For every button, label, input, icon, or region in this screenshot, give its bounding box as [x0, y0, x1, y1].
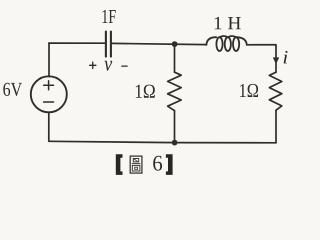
wire middle branch (node A down to resistor) [174, 44, 176, 72]
caption bracket left [116, 154, 123, 175]
node B junction dot (bottom) [172, 140, 178, 146]
label i current [284, 51, 288, 64]
wire left vertical (bottom) [48, 112, 50, 141]
caption bracket right [166, 154, 173, 175]
label v capacitor voltage [104, 61, 112, 71]
wire right branch (resistor to bottom corner) [275, 110, 277, 143]
wire top-right (inductor to right corner, down to arrow) [247, 45, 276, 72]
label + capacitor polarity [90, 62, 128, 68]
capacitor C 1F plates [106, 32, 111, 57]
wire top-middle (capacitor to inductor, through node A) [112, 43, 207, 44]
resistor R1 1 ohm (middle) zigzag [168, 72, 182, 110]
voltage source V1 circle [31, 76, 67, 112]
wire left vertical (top) [48, 43, 50, 76]
wire top-left (source to capacitor) [49, 42, 105, 44]
label 1 H [215, 17, 241, 29]
label - capacitor polarity [122, 65, 127, 67]
arrowhead for current i [273, 57, 279, 64]
wire middle branch (resistor to bottom node) [174, 111, 176, 143]
plus sign inside source [44, 81, 54, 102]
label 1F [103, 10, 116, 23]
wire bottom [49, 141, 276, 143]
label 1 ohm right [240, 84, 258, 97]
caption glyph tu (figure) [130, 156, 142, 173]
label 6V [3, 83, 22, 96]
minus sign inside source [44, 101, 54, 103]
label 1 ohm middle [136, 85, 155, 98]
node A junction dot (top) [172, 41, 178, 47]
caption 6 [153, 156, 162, 171]
inductor L 1H [206, 36, 246, 51]
resistor R2 1 ohm (right) zigzag [269, 72, 282, 110]
